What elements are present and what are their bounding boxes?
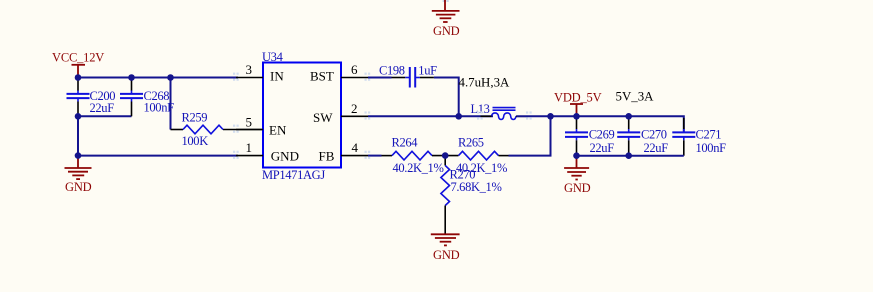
node C268 top (128, 74, 135, 81)
svg-text:GND: GND (65, 180, 92, 194)
svg-text:IN: IN (270, 69, 284, 84)
svg-text:100nF: 100nF (696, 141, 727, 155)
wire R265 to VOUT riser (499, 155, 509, 157)
svg-text:4: 4 (352, 140, 359, 155)
wire R264 to node (432, 155, 459, 157)
svg-text:4.7uH,3A: 4.7uH,3A (459, 75, 511, 89)
svg-text:5: 5 (246, 115, 253, 130)
node C269 top (573, 113, 580, 120)
svg-text:MP1471AGJ: MP1471AGJ (262, 168, 325, 182)
svg-text:C198: C198 (379, 64, 405, 78)
pin 4 FB stub (341, 140, 368, 155)
svg-text:VDD_5V: VDD_5V (554, 91, 602, 105)
pin 2 SW stub (341, 101, 368, 116)
wire hotspot marks (233, 73, 532, 159)
wire R259 riser from VCC rail (170, 78, 172, 130)
pin 1 GND stub (236, 140, 263, 155)
svg-text:5V_3A: 5V_3A (616, 90, 655, 104)
resistor R265 (456, 136, 507, 176)
wire C200-C268 bottom link (78, 115, 132, 117)
svg-text:GND: GND (564, 181, 591, 195)
svg-text:22uF: 22uF (644, 141, 669, 155)
power port VCC_12V (52, 51, 104, 76)
svg-text:100nF: 100nF (144, 101, 175, 115)
wire FB net (368, 155, 382, 157)
capacitor C198 (379, 64, 437, 88)
svg-text:L13: L13 (471, 102, 490, 116)
svg-text:22uF: 22uF (90, 101, 115, 115)
wire C198 to SW node (415, 77, 420, 79)
node C270 bottom (625, 152, 632, 159)
node C200 bottom (75, 113, 82, 120)
wire caps bottom rail (577, 155, 684, 157)
node C270 top (625, 113, 632, 120)
wire SW net (368, 115, 493, 117)
wire BST to C198 (368, 77, 392, 79)
wire R259 right lead to pin 5 (223, 129, 263, 131)
svg-text:22uF: 22uF (590, 141, 615, 155)
wire GND net bottom left (78, 155, 238, 157)
wire C200 bottom lead run (77, 98, 79, 101)
svg-text:C269: C269 (589, 128, 615, 142)
node BST branch (455, 113, 462, 120)
svg-text:1uF: 1uF (418, 64, 437, 78)
resistor R264 (392, 136, 444, 176)
svg-text:U34: U34 (262, 50, 284, 64)
svg-text:100K: 100K (182, 134, 209, 148)
node junction dots (75, 74, 632, 159)
power port VDD_5V (554, 91, 602, 115)
node FB divider (442, 152, 449, 159)
node R259 top (167, 74, 174, 81)
svg-text:FB: FB (319, 148, 335, 163)
svg-text:6: 6 (351, 62, 358, 77)
IC U34 regulator MP1471AGJ (262, 50, 341, 182)
capacitor C270 (617, 116, 668, 155)
svg-text:EN: EN (269, 122, 287, 137)
capacitor C271 (672, 118, 726, 156)
node VCC top (75, 74, 82, 81)
node VOUT riser (547, 113, 554, 120)
pin 3 IN stub (236, 62, 263, 77)
svg-text:R259: R259 (182, 111, 208, 125)
svg-text:3: 3 (246, 62, 253, 77)
pin 6 BST stub (341, 62, 368, 77)
capacitor C268 (120, 89, 174, 115)
svg-text:R264: R264 (392, 136, 419, 150)
wire R259 left lead (171, 129, 184, 131)
svg-text:7.68K_1%: 7.68K_1% (451, 180, 502, 194)
svg-text:BST: BST (310, 69, 334, 84)
svg-text:1: 1 (246, 140, 253, 155)
inductor L13 (471, 102, 529, 120)
svg-text:GND: GND (433, 248, 460, 262)
svg-text:SW: SW (313, 110, 333, 125)
pin 5 EN stub (236, 115, 263, 130)
svg-text:GND: GND (271, 148, 299, 163)
svg-text:GND: GND (433, 24, 460, 38)
wire VCC node down to GND node (77, 116, 79, 155)
ground GND top (off-page wire) (432, 0, 460, 38)
capacitor C269 (565, 116, 614, 155)
node C269 bottom (573, 152, 580, 159)
svg-text:C270: C270 (641, 128, 667, 142)
ground GND below R270 (431, 234, 460, 262)
node GND left (75, 152, 82, 159)
svg-text:2: 2 (351, 101, 358, 116)
resistor R259 (182, 111, 224, 149)
capacitor C200 (67, 78, 116, 116)
ground GND left (65, 156, 92, 194)
svg-text:40.2K_1%: 40.2K_1% (393, 161, 444, 175)
wire C268 leads (131, 78, 133, 91)
wire top rail VCC net (78, 77, 238, 79)
wire VOUT rail (517, 116, 684, 131)
svg-text:R265: R265 (458, 136, 484, 150)
resistor R270 (441, 156, 502, 235)
ground GND below C269 (564, 156, 591, 195)
svg-text:VCC_12V: VCC_12V (52, 51, 104, 65)
svg-text:C271: C271 (696, 128, 722, 142)
